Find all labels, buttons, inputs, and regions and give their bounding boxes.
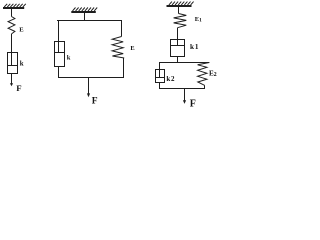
dashpot k (left): cylinder left wall [7, 52, 9, 74]
dashpot k (left): piston plate [8, 65, 17, 67]
top bar (node) [57, 20, 122, 22]
wire: spring to dashpot [11, 34, 13, 53]
wire: bar to spring (right branch) [121, 21, 123, 37]
dashpot k (middle): cylinder bottom edge [54, 66, 65, 68]
dashpot k2: cylinder right wall [164, 69, 166, 83]
svg-text:E1: E1 [195, 16, 202, 23]
arrow F (left) [10, 83, 13, 86]
svg-text:k: k [67, 54, 71, 61]
svg-text:k1: k1 [190, 43, 199, 51]
wire: bar to arrow [184, 89, 186, 101]
dashpot k (middle): cylinder left wall [54, 41, 56, 67]
svg-text:F: F [16, 83, 21, 93]
arrow F (middle) [87, 93, 90, 97]
wire: dashpot to arrow [11, 74, 13, 84]
svg-text:E2: E2 [209, 70, 217, 78]
svg-text:E: E [130, 45, 134, 52]
wire: ceiling to top bar [84, 13, 86, 21]
dashpot k (left): cylinder bottom edge [7, 73, 18, 75]
wire: ceiling to spring E1 [178, 7, 180, 14]
dashpot k (left): cylinder top edge [7, 52, 18, 54]
wire: bar to dashpot rod [58, 21, 60, 53]
wire: dashpot to bottom bar [58, 67, 60, 78]
spring E (middle) [112, 37, 124, 59]
dashpot k1: piston plate [171, 45, 184, 47]
dashpot k (middle): cylinder right wall [64, 41, 66, 67]
wire: dashpot k1 to mid bar [177, 57, 179, 63]
mid bar (node) [159, 62, 209, 64]
ceiling hatch right [167, 2, 194, 6]
svg-text:F: F [92, 97, 98, 107]
dashpot k2: cylinder top edge [155, 69, 165, 71]
spring E2 [198, 63, 210, 86]
wire: spring E1 to dashpot k1 [177, 28, 179, 40]
spring E (left) [8, 17, 15, 34]
wire: dashpot k2 to bottom bar [159, 83, 161, 89]
dashpot k1: cylinder right wall [184, 39, 186, 57]
dashpot k2: cylinder bottom edge [155, 82, 165, 84]
dashpot k2: piston rod [159, 70, 161, 78]
dashpot k2: cylinder left wall [155, 69, 157, 83]
dashpot k (middle): cylinder top edge [54, 41, 65, 43]
dashpot k2: piston plate [156, 77, 164, 79]
arrow F (right) [183, 100, 186, 104]
dashpot k (left): piston rod [11, 53, 13, 66]
ceiling hatch middle [71, 8, 97, 13]
dashpot k1: piston rod [177, 40, 179, 46]
svg-text:k2: k2 [166, 75, 175, 83]
svg-text:k: k [20, 60, 24, 67]
wire: spring E2 to bottom bar [204, 85, 206, 88]
dashpot k1: cylinder left wall [170, 39, 172, 57]
bottom bar (node) [159, 88, 205, 90]
dashpot k (middle): piston plate [55, 52, 64, 54]
wire: spring to bottom bar [123, 58, 125, 78]
dashpot k1: cylinder bottom edge [170, 56, 185, 58]
dashpot k (left): cylinder right wall [17, 52, 19, 74]
spring E1 [174, 14, 187, 28]
svg-text:F: F [190, 98, 196, 109]
bottom bar (node) [58, 77, 124, 79]
wire: ceiling to spring [11, 9, 13, 17]
dashpot k1: cylinder top edge [170, 39, 185, 41]
svg-text:E: E [19, 26, 24, 33]
ceiling hatch left [3, 4, 26, 8]
wire: bar to dashpot k2 [159, 63, 161, 70]
wire: bar to arrow [88, 78, 90, 95]
